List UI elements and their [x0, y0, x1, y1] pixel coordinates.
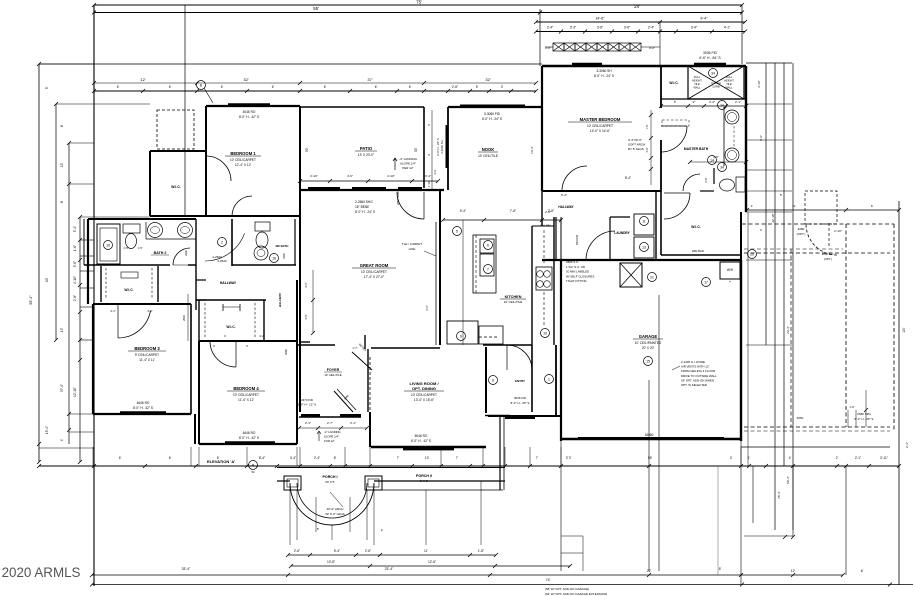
svg-text:6': 6'	[221, 85, 224, 89]
svg-text:3'-0": 3'-0"	[425, 305, 429, 311]
svg-text:22'-10": 22'-10"	[771, 213, 775, 222]
master top wall	[542, 65, 746, 67]
svg-text:22': 22'	[647, 569, 652, 573]
bedroom3 right wall	[190, 304, 192, 414]
svg-text:37': 37'	[367, 77, 372, 82]
svg-text:FULL: FULL	[726, 75, 733, 79]
svg-text:7'-6": 7'-6"	[510, 209, 516, 213]
right ext line x775	[774, 63, 776, 530]
svg-text:-4" LANDING: -4" LANDING	[324, 430, 341, 434]
masterbath left dim lines	[650, 110, 652, 185]
wic4 rod	[222, 304, 224, 311]
circled 14	[708, 156, 717, 165]
svg-text:4': 4'	[789, 456, 792, 460]
circled 1	[545, 375, 554, 384]
svg-text:10' CEIL/CARPET: 10' CEIL/CARPET	[233, 393, 259, 397]
svg-text:75': 75'	[416, 0, 422, 5]
svg-text:FROM CEILING 4 FLOOR: FROM CEILING 4 FLOOR	[681, 369, 715, 373]
svg-text:LAUNDRY: LAUNDRY	[614, 231, 630, 235]
bedroom1 right wall	[299, 106, 301, 216]
garage slab line	[741, 446, 890, 448]
svg-text:10' CEIL/CARPET: 10' CEIL/CARPET	[230, 158, 256, 162]
svg-text:13': 13'	[60, 162, 64, 167]
circled 20	[748, 250, 757, 259]
svg-text:13: 13	[642, 246, 646, 250]
wic1 door arc	[206, 156, 231, 181]
svg-text:17'-4" X 27'-0": 17'-4" X 27'-0"	[364, 275, 384, 279]
svg-text:11': 11'	[792, 204, 796, 208]
bd bath sink	[254, 246, 268, 260]
bed3-bed4 step wall	[194, 414, 196, 444]
svg-text:10' CEIL/PAINTED: 10' CEIL/PAINTED	[635, 341, 662, 345]
master wing dim line 14-6 / 9-4	[536, 21, 745, 23]
svg-text:6'-6" H - 84" S: 6'-6" H - 84" S	[699, 56, 721, 60]
svg-text:11': 11'	[424, 549, 428, 553]
svg-text:3470 FID: 3470 FID	[301, 398, 313, 402]
dashed extension bottom	[744, 426, 890, 428]
toilet room walls	[700, 190, 714, 192]
svg-text:4046 RO: 4046 RO	[243, 110, 256, 114]
svg-text:2680 S#G: 2680 S#G	[857, 412, 871, 416]
svg-text:2'-6": 2'-6"	[452, 85, 458, 89]
svg-text:WALL: WALL	[694, 86, 702, 90]
island second box	[479, 326, 503, 344]
svg-text:14'-6": 14'-6"	[595, 17, 605, 21]
dashed slab top	[742, 223, 894, 225]
main bottom dim line	[39, 465, 899, 467]
right tick lines	[746, 103, 792, 105]
master door arc	[661, 126, 687, 152]
svg-text:6'-0" H - 42" S: 6'-0" H - 42" S	[411, 439, 431, 443]
svg-text:9'-4": 9'-4"	[700, 17, 708, 21]
left extension line x56	[55, 104, 57, 340]
bedroom3 left wall	[92, 304, 94, 414]
circled 9	[457, 332, 466, 341]
svg-text:24': 24'	[902, 327, 906, 332]
top dim line y83	[94, 82, 536, 84]
wic1 left wall	[149, 151, 151, 216]
svg-text:TILE: TILE	[726, 82, 732, 86]
svg-text:6': 6'	[324, 85, 327, 89]
svg-text:7': 7'	[397, 456, 400, 460]
dimension line 55 ft / 24 ft	[94, 12, 742, 14]
building extension stubs to dim line	[92, 447, 94, 466]
svg-text:2440: 2440	[184, 250, 188, 256]
svg-text:BROOM: BROOM	[575, 235, 579, 245]
mud door arc	[507, 345, 532, 370]
svg-text:2-2620: 2-2620	[217, 259, 227, 263]
left tick lines	[39, 63, 94, 65]
svg-text:40': 40'	[45, 277, 49, 282]
bedroom1 top wall	[206, 105, 300, 107]
master wing dim sub line	[536, 31, 745, 33]
kitchen right wall	[531, 226, 533, 345]
svg-text:10' CEIL/CARPET: 10' CEIL/CARPET	[587, 124, 613, 128]
svg-text:+: +	[729, 280, 731, 284]
svg-text:BEDROOM 1: BEDROOM 1	[230, 151, 256, 156]
svg-text:6': 6'	[169, 456, 172, 460]
porch arch outer	[290, 483, 374, 525]
toilet bath2	[123, 224, 140, 233]
svg-text:BATH 2: BATH 2	[154, 251, 167, 255]
right ext line x766	[765, 63, 767, 345]
svg-text:34: 34	[711, 72, 715, 76]
garage left wall	[560, 260, 562, 441]
living window	[403, 447, 454, 450]
circled 16	[270, 254, 279, 263]
dashed extension rect	[790, 249, 792, 427]
svg-text:3'-10": 3'-10"	[310, 174, 318, 178]
master left wall	[541, 66, 543, 191]
svg-text:3'-4"X9'-0": 3'-4"X9'-0"	[628, 138, 642, 142]
kitchen counter	[473, 235, 496, 293]
bath wall y99	[661, 98, 746, 100]
svg-text:8'-0" H - 24" S: 8'-0" H - 24" S	[355, 210, 375, 214]
kitchen range	[480, 239, 494, 253]
svg-text:9": 9"	[693, 100, 696, 104]
svg-text:10: 10	[543, 332, 547, 336]
svg-text:1'-10": 1'-10"	[427, 181, 431, 188]
bedroom4 top wall	[199, 340, 297, 342]
svg-text:(58' W/ OPT. ADD-ON GARAGE): (58' W/ OPT. ADD-ON GARAGE)	[545, 587, 589, 591]
hallway door arc master	[562, 166, 587, 191]
svg-text:2'-6": 2'-6"	[365, 549, 371, 553]
svg-text:2680: 2680	[284, 349, 288, 355]
svg-text:MASTER BEDROOM: MASTER BEDROOM	[580, 117, 621, 122]
great room top wall	[300, 189, 444, 191]
extension line left x94	[93, 5, 95, 586]
svg-text:8': 8'	[719, 567, 722, 571]
front door diagonal	[334, 391, 353, 412]
circled 17	[702, 278, 711, 287]
svg-text:8'-4": 8'-4"	[625, 176, 631, 180]
patio bottom dim line	[300, 180, 438, 182]
sink1 bath2	[148, 223, 163, 238]
kitchen dim extension	[462, 220, 464, 345]
dashed skylight box	[157, 110, 194, 149]
bath2 left wall	[83, 219, 85, 265]
extension line x540	[539, 9, 541, 66]
svg-text:7': 7'	[456, 456, 459, 460]
extension line x185	[184, 5, 186, 216]
svg-text:2880 S.C.: 2880 S.C.	[566, 260, 579, 264]
insulation hatch band	[553, 43, 564, 51]
svg-text:10' CEIL/TILE: 10' CEIL/TILE	[478, 154, 498, 158]
svg-text:13'-4" X 15'-6": 13'-4" X 15'-6"	[414, 398, 434, 402]
svg-text:1'-6": 1'-6"	[73, 245, 77, 251]
svg-text:33'-4": 33'-4"	[182, 567, 191, 571]
garage right wall	[740, 260, 742, 441]
svg-text:2'-1": 2'-1"	[855, 456, 861, 460]
right ext line x748	[747, 212, 749, 466]
svg-text:3': 3'	[566, 456, 569, 460]
svg-text:5' X 5': 5' X 5'	[420, 479, 429, 483]
svg-text:4050: 4050	[797, 416, 804, 420]
svg-text:HALLWAY: HALLWAY	[220, 281, 237, 285]
porch slab line	[374, 489, 503, 491]
svg-text:8: 8	[492, 379, 494, 383]
wic3 walls	[100, 266, 102, 302]
svg-text:10'-8": 10'-8"	[327, 560, 335, 564]
svg-text:1 3/4" S.C. OR: 1 3/4" S.C. OR	[566, 265, 585, 269]
svg-text:4'-1": 4'-1"	[110, 309, 116, 313]
foyer front wall	[299, 416, 361, 418]
svg-text:3036 FID: 3036 FID	[514, 396, 527, 400]
svg-text:9' CEIL/CARPET: 9' CEIL/CARPET	[135, 353, 159, 357]
great room right wall	[439, 190, 441, 345]
master bottom wall	[542, 190, 661, 192]
svg-text:3'-10": 3'-10"	[757, 80, 761, 88]
svg-text:5': 5'	[476, 85, 479, 89]
overall dimension line 75 ft	[94, 4, 742, 6]
bottom mid ext lines	[648, 380, 650, 571]
mud room walls	[483, 344, 532, 346]
svg-text:W.I.C.: W.I.C.	[226, 325, 235, 329]
svg-text:W.I.C.: W.I.C.	[691, 225, 701, 229]
svg-text:2'-1": 2'-1"	[735, 100, 741, 104]
shower box	[688, 66, 744, 99]
svg-text:FOYER: FOYER	[327, 368, 340, 372]
bathtub	[97, 224, 120, 264]
svg-text:24': 24'	[634, 4, 640, 9]
svg-text:7: 7	[487, 268, 489, 272]
porch front line 1	[277, 467, 505, 469]
svg-text:2'-6": 2'-6"	[545, 210, 551, 214]
svg-text:4': 4'	[60, 438, 64, 441]
toilet room dim	[690, 161, 746, 163]
wic3 shelf dashes	[105, 268, 107, 298]
patio top wall	[300, 106, 424, 108]
svg-text:PATIO: PATIO	[360, 146, 373, 151]
svg-text:3036 FID: 3036 FID	[703, 51, 717, 55]
living se wall	[485, 415, 510, 417]
master bath dim row	[661, 105, 746, 107]
bedroom1 left wall	[205, 106, 207, 216]
svg-text:(OPT.): (OPT.)	[797, 232, 806, 236]
circled 21	[648, 273, 657, 282]
svg-text:ELEVATION 'A': ELEVATION 'A'	[207, 459, 235, 464]
master wic dashed shelf	[662, 120, 689, 126]
svg-text:8': 8'	[334, 456, 337, 460]
circled B bottom	[249, 461, 258, 470]
svg-text:56': 56'	[648, 456, 653, 460]
svg-text:6'-0" H - 24" S: 6'-0" H - 24" S	[482, 117, 502, 121]
svg-text:2-1405 G.I. DOME: 2-1405 G.I. DOME	[681, 360, 705, 364]
circled 5	[453, 227, 462, 236]
svg-text:12'-10": 12'-10"	[73, 387, 77, 397]
svg-text:1: 1	[548, 378, 550, 382]
svg-text:2'-8": 2'-8"	[705, 177, 708, 182]
master east wall	[660, 66, 662, 108]
svg-text:17: 17	[704, 281, 708, 285]
svg-text:W.I.C.: W.I.C.	[669, 81, 678, 85]
svg-text:13': 13'	[60, 328, 64, 333]
svg-text:8': 8'	[60, 200, 64, 203]
svg-text:11'-4" X 11': 11'-4" X 11'	[139, 358, 155, 362]
svg-text:14: 14	[720, 104, 724, 108]
svg-text:KITCHEN: KITCHEN	[505, 295, 522, 299]
svg-text:13'-4": 13'-4"	[530, 146, 534, 154]
svg-text:1'-6": 1'-6"	[646, 124, 649, 129]
svg-text:GREAT ROOM: GREAT ROOM	[360, 263, 389, 268]
svg-text:37'-4": 37'-4"	[60, 384, 64, 392]
svg-text:PORCH II: PORCH II	[416, 474, 432, 478]
svg-text:74': 74'	[546, 578, 551, 582]
svg-text:12': 12'	[140, 77, 145, 82]
bedroom4 right wall	[296, 280, 298, 444]
svg-text:6046 RO: 6046 RO	[415, 434, 428, 438]
svg-text:SLOPE 1/4": SLOPE 1/4"	[400, 162, 416, 166]
kitchen oven	[480, 254, 494, 276]
svg-text:10': 10'	[425, 456, 430, 460]
svg-text:12'-4" X 12': 12'-4" X 12'	[235, 163, 252, 167]
living right wall	[485, 347, 487, 413]
wic2 door arc	[664, 193, 690, 219]
svg-text:16" BENE: 16" BENE	[355, 205, 369, 209]
svg-text:4646 RO: 4646 RO	[137, 401, 150, 405]
circled 14 dim	[718, 101, 727, 110]
svg-text:8'-4": 8'-4"	[259, 456, 265, 460]
svg-text:6'-0" H - 12" S: 6'-0" H - 12" S	[298, 403, 316, 407]
patio right dim vline	[431, 110, 433, 190]
garage top wall	[542, 259, 741, 261]
svg-text:6': 6'	[409, 85, 412, 89]
svg-text:B: B	[200, 84, 202, 88]
porch pillar right	[365, 476, 382, 490]
bath2 bottom wall	[84, 264, 170, 266]
nook left wall	[447, 107, 449, 190]
hall double door arc	[205, 233, 245, 261]
master bath sink 1	[725, 110, 739, 124]
svg-text:1'-8": 1'-8"	[478, 549, 484, 553]
svg-text:3'-11": 3'-11"	[880, 456, 888, 460]
living left wall	[367, 349, 369, 412]
bedroom4 left wall	[198, 341, 200, 444]
svg-text:7': 7'	[536, 456, 539, 460]
circled 15	[644, 357, 653, 366]
svg-text:MASTER BATH: MASTER BATH	[684, 147, 709, 151]
svg-text:3': 3'	[730, 456, 733, 460]
svg-text:6': 6'	[117, 85, 120, 89]
svg-text:5'-4": 5'-4"	[73, 226, 77, 232]
garage door opening	[578, 437, 724, 439]
spine wall hallway-greatroom	[299, 216, 301, 345]
svg-text:GARAGE: GARAGE	[639, 334, 658, 339]
svg-text:15'-4": 15'-4"	[777, 491, 781, 499]
master window	[572, 63, 602, 67]
wic4 shelf dashes	[204, 303, 206, 338]
bedroom3 window	[120, 411, 166, 415]
svg-text:6': 6'	[861, 569, 864, 573]
svg-text:W/ 6'-0" LEGS: W/ 6'-0" LEGS	[325, 512, 344, 516]
nook top wall	[448, 106, 542, 108]
svg-text:3'-4": 3'-4"	[290, 456, 296, 460]
svg-text:OPT. DINING: OPT. DINING	[412, 386, 436, 391]
svg-text:4'-6": 4'-6"	[347, 174, 353, 178]
opt door dashed	[805, 191, 837, 224]
svg-text:2640: 2640	[182, 315, 186, 321]
svg-text:34: 34	[720, 166, 724, 170]
svg-text:20' X 20': 20' X 20'	[642, 346, 655, 350]
svg-text:11'-4" X 12': 11'-4" X 12'	[238, 398, 254, 402]
svg-text:PORCH I: PORCH I	[323, 475, 338, 479]
master east exterior wall	[745, 66, 747, 212]
svg-text:8'-0" H - 24" S: 8'-0" H - 24" S	[594, 74, 614, 78]
svg-text:30': 30'	[305, 148, 309, 153]
svg-text:FULL: FULL	[694, 75, 701, 79]
svg-text:HALLWAY: HALLWAY	[558, 205, 574, 209]
svg-text:NOOK: NOOK	[482, 147, 495, 152]
circled 10	[541, 329, 550, 338]
svg-text:23'-4": 23'-4"	[786, 326, 790, 334]
svg-text:4'-10": 4'-10"	[73, 276, 77, 284]
svg-text:BY 8' LEGS: BY 8' LEGS	[628, 147, 644, 151]
svg-text:W.I.C.: W.I.C.	[171, 185, 181, 189]
svg-text:1'-6": 1'-6"	[123, 246, 128, 250]
svg-text:3'-1": 3'-1"	[350, 421, 356, 425]
svg-text:10' CEIL/CARPET: 10' CEIL/CARPET	[411, 393, 437, 397]
bath2 door arc	[173, 248, 190, 265]
svg-text:4'-2": 4'-2"	[147, 309, 153, 313]
bedroom4 door arc	[210, 341, 236, 367]
left extension line x39	[38, 64, 40, 462]
svg-text:16: 16	[272, 257, 276, 261]
svg-text:BD BATH: BD BATH	[276, 244, 289, 248]
svg-text:15: 15	[646, 360, 650, 364]
extension line x660	[659, 22, 661, 66]
svg-text:TILE: TILE	[694, 82, 700, 86]
svg-text:4'-10": 4'-10"	[387, 174, 395, 178]
svg-text:3'-0": 3'-0"	[545, 46, 551, 50]
svg-text:6'-0" H - 24" S: 6'-0" H - 24" S	[436, 138, 440, 156]
shower window	[694, 63, 726, 67]
svg-text:BEDROOM 4: BEDROOM 4	[233, 386, 259, 391]
bath2 left exterior wall	[87, 219, 89, 304]
svg-text:30': 30'	[414, 148, 418, 153]
svg-text:55': 55'	[313, 6, 319, 11]
svg-text:2440: 2440	[282, 253, 286, 259]
left extension line x69	[68, 143, 70, 444]
bedroom3 top wall	[93, 303, 191, 305]
left dim 2640	[187, 294, 189, 341]
patio right wall	[423, 107, 425, 188]
right ext line x793	[792, 63, 794, 530]
svg-text:W/H: W/H	[727, 268, 734, 272]
svg-text:DRIVE TO OUTSIDE WALL: DRIVE TO OUTSIDE WALL	[681, 374, 717, 378]
svg-text:CURB: CURB	[712, 85, 720, 89]
hall bottom wall	[196, 299, 206, 301]
porch arch inner	[297, 483, 367, 518]
svg-text:2880 S.C.: 2880 S.C.	[822, 252, 835, 256]
svg-text:52: 52	[251, 470, 255, 474]
furnace box	[620, 263, 642, 287]
svg-text:4'-6": 4'-6"	[304, 282, 308, 288]
porch2 col lines bottom	[560, 441, 562, 571]
circled note A	[197, 81, 206, 90]
svg-text:59'-4": 59'-4"	[786, 476, 790, 484]
kitchen sink	[536, 267, 552, 290]
porch ext verticals	[289, 483, 291, 545]
svg-text:10' CEIL/CARPET: 10' CEIL/CARPET	[361, 270, 387, 274]
bedroom1 window	[228, 103, 270, 107]
nook left window	[446, 125, 449, 168]
washer	[634, 214, 654, 235]
living niche dashed	[479, 336, 499, 338]
garage bottom wall	[561, 438, 741, 440]
porch front line 2	[277, 480, 290, 482]
svg-text:1'-6": 1'-6"	[137, 246, 142, 250]
svg-text:13' X 20'-0": 13' X 20'-0"	[358, 153, 374, 157]
